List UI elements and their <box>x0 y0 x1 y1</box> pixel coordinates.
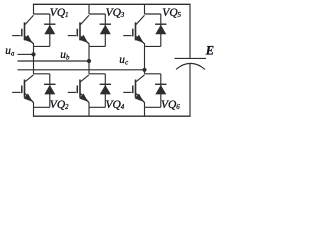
wire: upper loop bottom rail (VQ1) <box>34 45 50 47</box>
label VQ5 <box>162 7 181 19</box>
source E: curved plate <box>176 63 205 69</box>
svg-text:4: 4 <box>121 103 125 111</box>
wire: lower loop top rail (VQ6) <box>145 73 161 75</box>
label VQ1 <box>50 7 69 19</box>
wire: source E to bottom bus <box>189 64 191 117</box>
label VQ2 <box>50 99 69 111</box>
wire: VQ2 to bottom bus <box>33 107 35 116</box>
wire: lower loop bottom rail (VQ6) <box>145 106 161 108</box>
transistor VQ4 (IGBT) <box>68 75 89 103</box>
node a (junction dot) <box>31 52 35 56</box>
svg-text:c: c <box>125 60 128 67</box>
wire: phase leg midpoint vertical <box>88 46 90 73</box>
wire: VQ3 emitter tail <box>88 43 90 46</box>
wire: lower loop bottom rail (VQ4) <box>89 106 105 108</box>
label u_b <box>60 49 70 62</box>
svg-text:VQ: VQ <box>106 7 122 19</box>
svg-text:VQ: VQ <box>161 99 177 111</box>
node c (junction dot) <box>142 68 146 72</box>
wire: phase c output <box>18 69 145 71</box>
diode of VQ2 (antiparallel, cathode up) <box>44 74 55 108</box>
label E <box>205 44 214 58</box>
svg-text:VQ: VQ <box>106 99 122 111</box>
source E: flat plate <box>175 57 207 59</box>
wire: phase leg midpoint vertical <box>144 46 146 73</box>
wire: VQ6 to bottom bus <box>144 107 146 116</box>
diode of VQ4 (antiparallel, cathode up) <box>100 74 111 108</box>
wire: VQ4 emitter tail <box>88 102 90 107</box>
label VQ4 <box>106 99 125 111</box>
transistor VQ6 (IGBT) <box>123 75 144 103</box>
wire: top bus to source E <box>189 4 191 58</box>
wire: VQ2 emitter tail <box>33 102 35 107</box>
svg-text:6: 6 <box>176 103 180 111</box>
svg-text:2: 2 <box>65 103 69 111</box>
wire: VQ4 to bottom bus <box>88 107 90 116</box>
transistor VQ5 (IGBT) <box>123 15 144 44</box>
diode of VQ3 (antiparallel, cathode up) <box>100 14 111 46</box>
wire: lower loop top rail (VQ4) <box>89 73 105 75</box>
transistor VQ3 (IGBT) <box>68 15 89 44</box>
wire: lower loop top rail (VQ2) <box>34 73 50 75</box>
wire: VQ5 emitter tail <box>144 43 146 46</box>
transistor VQ1 (IGBT) <box>12 15 33 44</box>
diode of VQ5 (antiparallel, cathode up) <box>155 14 166 46</box>
wire: VQ1 emitter tail <box>33 43 35 46</box>
wire: VQ6 emitter tail <box>144 102 146 107</box>
svg-text:3: 3 <box>120 11 125 19</box>
wire: upper loop top rail (VQ5) <box>145 13 161 15</box>
label VQ3 <box>106 7 125 19</box>
wire: upper loop top rail (VQ1) <box>34 13 50 15</box>
wire: negative DC bus (bottom) <box>33 115 191 117</box>
svg-text:1: 1 <box>65 11 69 19</box>
wire: upper loop bottom rail (VQ3) <box>89 45 105 47</box>
wire: positive DC bus (top) <box>33 3 191 5</box>
wire: phase leg midpoint vertical <box>33 46 35 73</box>
wire: upper loop top rail (VQ3) <box>89 13 105 15</box>
wire: lower loop bottom rail (VQ2) <box>34 106 50 108</box>
diode of VQ6 (antiparallel, cathode up) <box>155 74 166 108</box>
transistor VQ2 (IGBT) <box>12 75 33 103</box>
diode of VQ1 (antiparallel, cathode up) <box>44 14 55 46</box>
wire: top bus to VQ3 collector <box>88 4 90 14</box>
label u_c <box>119 54 128 66</box>
svg-text:VQ: VQ <box>162 7 178 19</box>
svg-text:VQ: VQ <box>50 99 66 111</box>
wire: top bus to VQ5 collector <box>144 4 146 14</box>
svg-text:5: 5 <box>178 11 182 19</box>
node b (junction dot) <box>87 59 91 63</box>
svg-text:a: a <box>11 50 15 57</box>
label u_a <box>5 45 15 58</box>
svg-text:VQ: VQ <box>50 7 66 19</box>
wire: top bus to VQ1 collector <box>33 4 35 14</box>
svg-text:E: E <box>205 44 214 58</box>
svg-text:b: b <box>66 54 70 61</box>
wire: phase b output <box>18 60 90 62</box>
wire: upper loop bottom rail (VQ5) <box>145 45 161 47</box>
label VQ6 <box>161 99 180 111</box>
wire: phase a output <box>18 53 34 55</box>
